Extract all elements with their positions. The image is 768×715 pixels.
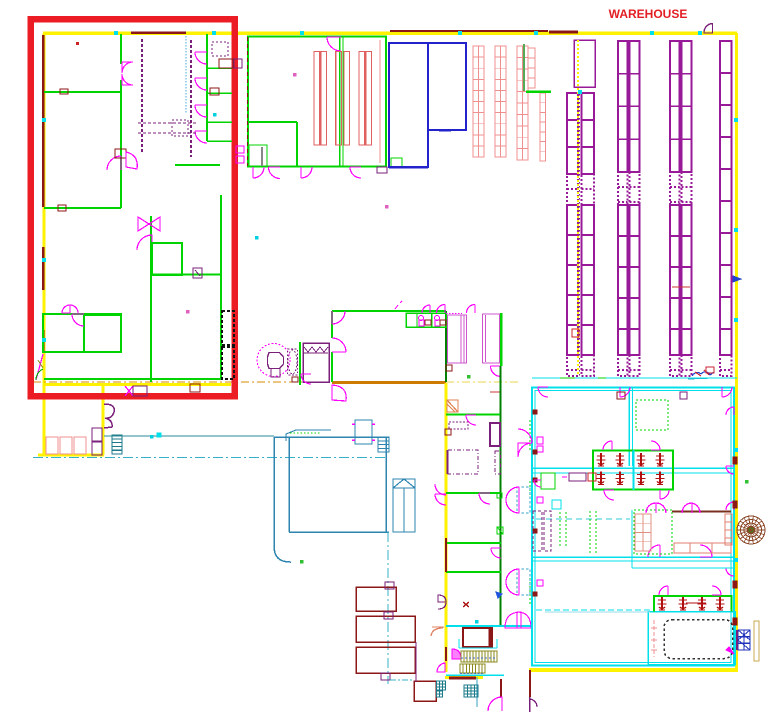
door magenta x151 y160 (115, 149, 137, 169)
rack purple lane1 bottom dashed (567, 355, 594, 376)
purple boxes x92 (92, 428, 102, 455)
wall left dark-red upper (42, 35, 44, 207)
dotted box room1 (212, 42, 228, 56)
cyan frame around box (459, 639, 497, 648)
wall green h y543 (446, 542, 501, 544)
door arc y415 (466, 415, 476, 425)
wall green v x300 (299, 342, 301, 385)
room lower-left inner (84, 315, 121, 352)
dark red v x501 (500, 679, 502, 697)
wall green h y572 (446, 571, 501, 573)
wall dark-green v x500 (499, 313, 502, 625)
wall left dark-red dashes (42, 247, 44, 352)
tree symbol (737, 516, 765, 544)
room lower-left outer (43, 314, 121, 352)
doors cyan block right wall (722, 387, 734, 576)
dark red seg x446 (445, 647, 447, 661)
wall green h y274 (151, 274, 221, 276)
stairs blue marks (460, 673, 483, 675)
wall top yellow (43, 31, 737, 35)
rack purple lane3 upper (670, 41, 692, 172)
door S-curve x103 (104, 404, 114, 428)
dashdot box B (495, 451, 501, 474)
wall green bottom y379 (44, 378, 221, 380)
purple dotted rail x579 (579, 90, 581, 376)
door magenta x133 y388 (125, 386, 147, 396)
symbol purple box 194 (193, 268, 202, 278)
rack purple lane1 lower (567, 205, 594, 355)
dashdot cyan y680 (390, 679, 414, 681)
door magenta x122 y63 (122, 62, 133, 85)
red mark x575 y333 (572, 329, 579, 337)
gray post 261 (261, 147, 263, 166)
door small x305 y374 (301, 374, 311, 384)
symbol box 193 y385 (190, 384, 200, 392)
box dark-red 4 (414, 681, 436, 701)
rack purple lane1 upper (567, 93, 594, 174)
small green box in blue A (391, 158, 402, 167)
ladder blue bl2 (464, 685, 478, 697)
small mark on wall y208 (58, 42, 79, 211)
cyan aisle line (545, 611, 650, 613)
magenta leaf rects x537 (537, 437, 543, 586)
salmon elbow y630 (431, 627, 444, 636)
stairs dotted green x590 (590, 511, 596, 554)
purple v x416 (415, 642, 417, 682)
ladder blue x112 (112, 435, 122, 454)
line orange dashdot y382 (33, 381, 520, 383)
wall yellow vertical x446 (444, 383, 447, 672)
wall green h y165 (175, 164, 220, 166)
door arcs corridor x207 (195, 52, 207, 143)
wall green h y122 (207, 121, 232, 123)
wall cyan h y466 (532, 468, 734, 473)
rack purple lane3 lower (670, 205, 692, 355)
door M top of room (62, 305, 78, 313)
symbol marks y150 (236, 146, 244, 163)
svg-text:WAREHOUSE: WAREHOUSE (609, 7, 688, 21)
door R x529 (530, 697, 538, 712)
rack salmon column 4 lower (540, 93, 546, 161)
equip machines bottom (658, 597, 725, 610)
room big green top-middle (248, 37, 386, 167)
rack salmon column 4 upper (528, 48, 535, 88)
wall green v x121 upper (120, 34, 122, 208)
green dashed box mid (634, 510, 672, 554)
doors mid rooms M2 (682, 503, 700, 513)
small scattered dots (150, 73, 748, 623)
red line x674 y287 (672, 286, 690, 288)
teal line y436 (104, 435, 274, 437)
salmon squares row (46, 437, 86, 454)
wall green v x151 (150, 216, 152, 382)
cyan line y610 (536, 609, 652, 611)
wall green v x121b (120, 92, 122, 170)
wall mid yellow horizontal y383 (44, 383, 231, 386)
toilet fixtures (419, 316, 447, 327)
door arc mid room left (332, 311, 345, 324)
cyan line y378 (532, 377, 737, 379)
wall top dark-red segment A (390, 30, 548, 32)
door arc top x330 (327, 37, 341, 51)
dark red marks on cyan wall (533, 410, 537, 596)
wall green v x207 (206, 34, 208, 141)
door arc room lower-left (72, 314, 84, 326)
cabinet violet 2 x483 (483, 314, 502, 392)
wall green v x341 double (340, 37, 343, 166)
dashed door box A x525 (506, 487, 530, 513)
cyan vertical x477 (476, 677, 478, 707)
wall brown y511 (672, 511, 731, 513)
door mid room (648, 545, 712, 557)
rack purple lane4 (720, 41, 732, 355)
room cyan outer (532, 388, 734, 666)
wall top dark-red segment C (131, 31, 186, 34)
rack purple lane3 dashed (670, 172, 692, 205)
machine pump box (352, 420, 375, 444)
room blue B bottom tick (439, 129, 451, 132)
doors y493 (435, 484, 490, 505)
dotted blue rail x186 (185, 36, 187, 113)
doors below big room (253, 167, 361, 179)
orange diag box (447, 400, 458, 412)
wall yellow vertical x103 (102, 386, 105, 455)
wall green h y493 (446, 492, 500, 494)
machine big blue outline (274, 437, 389, 562)
blue mark right wall (733, 276, 741, 282)
rack purple lane2 bottom dashed (618, 355, 640, 376)
equip green box bottom (654, 596, 732, 612)
conveyor red pair 2 (336, 52, 350, 146)
cyan dashed aisle y519 (536, 518, 630, 520)
room green box 152-182 (152, 243, 182, 275)
door arc top right (704, 24, 713, 34)
machine dotted circle (257, 344, 298, 383)
room cyan bottom right (648, 612, 735, 665)
dashed purple cross h1 (138, 122, 198, 124)
label WAREHOUSE (609, 7, 688, 21)
cabinet violet x449 (446, 314, 467, 372)
wall orange solid mid (332, 381, 446, 384)
green L wall x524 (524, 44, 551, 92)
machine dotted rect x288 (288, 349, 298, 375)
red mark y429 (445, 429, 451, 435)
equip machines row1 (597, 453, 665, 466)
conveyor salmon line x380 (379, 40, 381, 163)
door arc x502 bottom (488, 697, 502, 711)
salmon line x654 (651, 620, 657, 657)
green dotted line y433 (290, 432, 320, 434)
room step bottom-left (248, 122, 297, 166)
dashdot box A (448, 450, 478, 474)
machine blue step line (286, 430, 331, 441)
conveyor red pair 1 (314, 52, 326, 146)
stairs olive (461, 651, 497, 662)
wall left yellow (42, 33, 45, 455)
dash boxes left col (533, 511, 551, 551)
tan bar right (754, 621, 759, 661)
small room green 249 (249, 145, 267, 166)
blue tick y593 (496, 592, 502, 598)
dashed door box B x525 (506, 569, 530, 595)
door bowtie x442 (438, 595, 446, 609)
sub-room toilets (406, 313, 446, 327)
small room marks A (534, 473, 555, 489)
symbol box 212 y90 (210, 88, 219, 95)
wall bottom-left yellow (38, 454, 104, 457)
wall green h y208 (44, 207, 121, 209)
small green y493 (497, 493, 502, 498)
ladder blue bottom (437, 681, 446, 697)
cabinet purple x490 (490, 423, 500, 446)
wall top dark-red segment B (549, 31, 578, 34)
door magenta below x332 (332, 385, 346, 401)
equip cyan divider (633, 450, 635, 490)
rack purple lane3 bottom dashed (670, 355, 692, 376)
wall green h y92 (44, 91, 122, 93)
wall green h y68 (207, 67, 232, 69)
room blue A (389, 43, 428, 167)
cyan box small mid (552, 500, 561, 509)
box dark-red 2 (356, 616, 415, 642)
ladder blue right (737, 630, 750, 650)
dashed purple cross box (172, 120, 188, 136)
machine hatch box (378, 437, 389, 452)
equip machines row2 (597, 472, 665, 485)
wall green v x221 (220, 195, 222, 379)
wall dark-green v x446 (445, 311, 447, 382)
doors equip bottom (659, 586, 721, 595)
room cyan mid right (632, 510, 734, 568)
butterfly door x515 (505, 612, 531, 628)
cyan line y672 (446, 674, 504, 676)
shelf salmon L (674, 514, 732, 553)
dashed purple rail x191 (190, 40, 192, 157)
rack purple lane1 dashed (567, 174, 594, 205)
door arc x441 y661 (437, 663, 445, 672)
rack purple lane2 upper (618, 41, 640, 172)
forklift symbol near racks (688, 367, 714, 379)
green box X y527 (497, 527, 503, 534)
wall right yellow (735, 33, 738, 670)
purple edge x447 (447, 450, 449, 474)
door arc mid x121 (107, 156, 121, 170)
wall cyan y626 (446, 625, 532, 627)
cyan dashdot y457 (33, 457, 388, 459)
desk symbols y60 (219, 59, 242, 68)
equip green box (593, 451, 673, 490)
bar dark-red y677 (449, 677, 476, 680)
red link line bottom (686, 602, 706, 604)
doors mid rooms M1 (646, 503, 666, 513)
green dotted box top-right room (636, 400, 668, 430)
rack salmon column 3 (517, 46, 528, 160)
rack purple lane2 lower (618, 205, 640, 355)
dashed purple cross h2 (138, 132, 198, 134)
box dark-red 3 (356, 647, 415, 673)
highlight red rectangle (31, 19, 235, 396)
doors cyan top wall (538, 387, 630, 397)
conveyor red pair 3 (359, 52, 372, 146)
storage dotted rounded rect (664, 620, 734, 659)
machine purple rect x303 (303, 343, 329, 382)
door magenta bottom left (36, 354, 43, 380)
wall green h y93 (207, 92, 232, 94)
yellow dotted rail x578 (577, 40, 579, 376)
cyan dot x159 (157, 433, 161, 437)
stairs dotted green x560 (560, 512, 566, 548)
red X mark (463, 602, 469, 607)
small marks cyan block (617, 392, 687, 399)
wall cyan v x630 (629, 388, 633, 466)
rack salmon column 1 (473, 46, 484, 157)
wall dark-red dashed x247 (246, 37, 248, 166)
doors near equip (603, 441, 669, 500)
wall cyan h y558 (532, 557, 734, 561)
box dark-red 1 (356, 587, 396, 611)
box dark-red thick (463, 628, 492, 647)
door magenta filled (452, 649, 461, 659)
dashdot blue vertical x388 (387, 532, 389, 684)
magenta door symbol top x140 (137, 217, 160, 250)
wall yellow y675 (445, 676, 483, 679)
rack salmon column 2 (495, 46, 506, 157)
wall green h y141 (207, 140, 232, 142)
room blue B (428, 43, 466, 130)
small room marks B (562, 473, 596, 481)
door arc mid room x332 y338 (332, 338, 346, 352)
machine tall rect (393, 479, 415, 532)
storage dashed boxes x222 (222, 311, 234, 379)
dark red ticks right wall (733, 457, 737, 625)
dark red on yellow x446 (445, 538, 447, 572)
door magenta y548 (491, 548, 501, 558)
wall green h y415 (446, 414, 500, 416)
purple clips (381, 582, 394, 680)
wall yellow bottom right (529, 668, 738, 672)
stairs olive 2 (460, 664, 485, 673)
doors cyan block left wall (518, 429, 532, 457)
dotted box y422 (449, 422, 468, 429)
blue A bottom thick (389, 166, 428, 169)
rack purple top rect (574, 40, 595, 87)
door rect below room x377 (377, 167, 387, 173)
dark red v x530 (529, 670, 531, 697)
rack purple lane2 dashed (618, 172, 640, 205)
dashed purple rail x142 (141, 39, 143, 154)
green dash marks cyan (529, 420, 531, 605)
cyan wall ticks (42, 31, 738, 562)
room mid green walls (332, 311, 446, 382)
doors above mid room (395, 301, 475, 313)
rack purple lane4 bottom dashed (720, 355, 732, 376)
